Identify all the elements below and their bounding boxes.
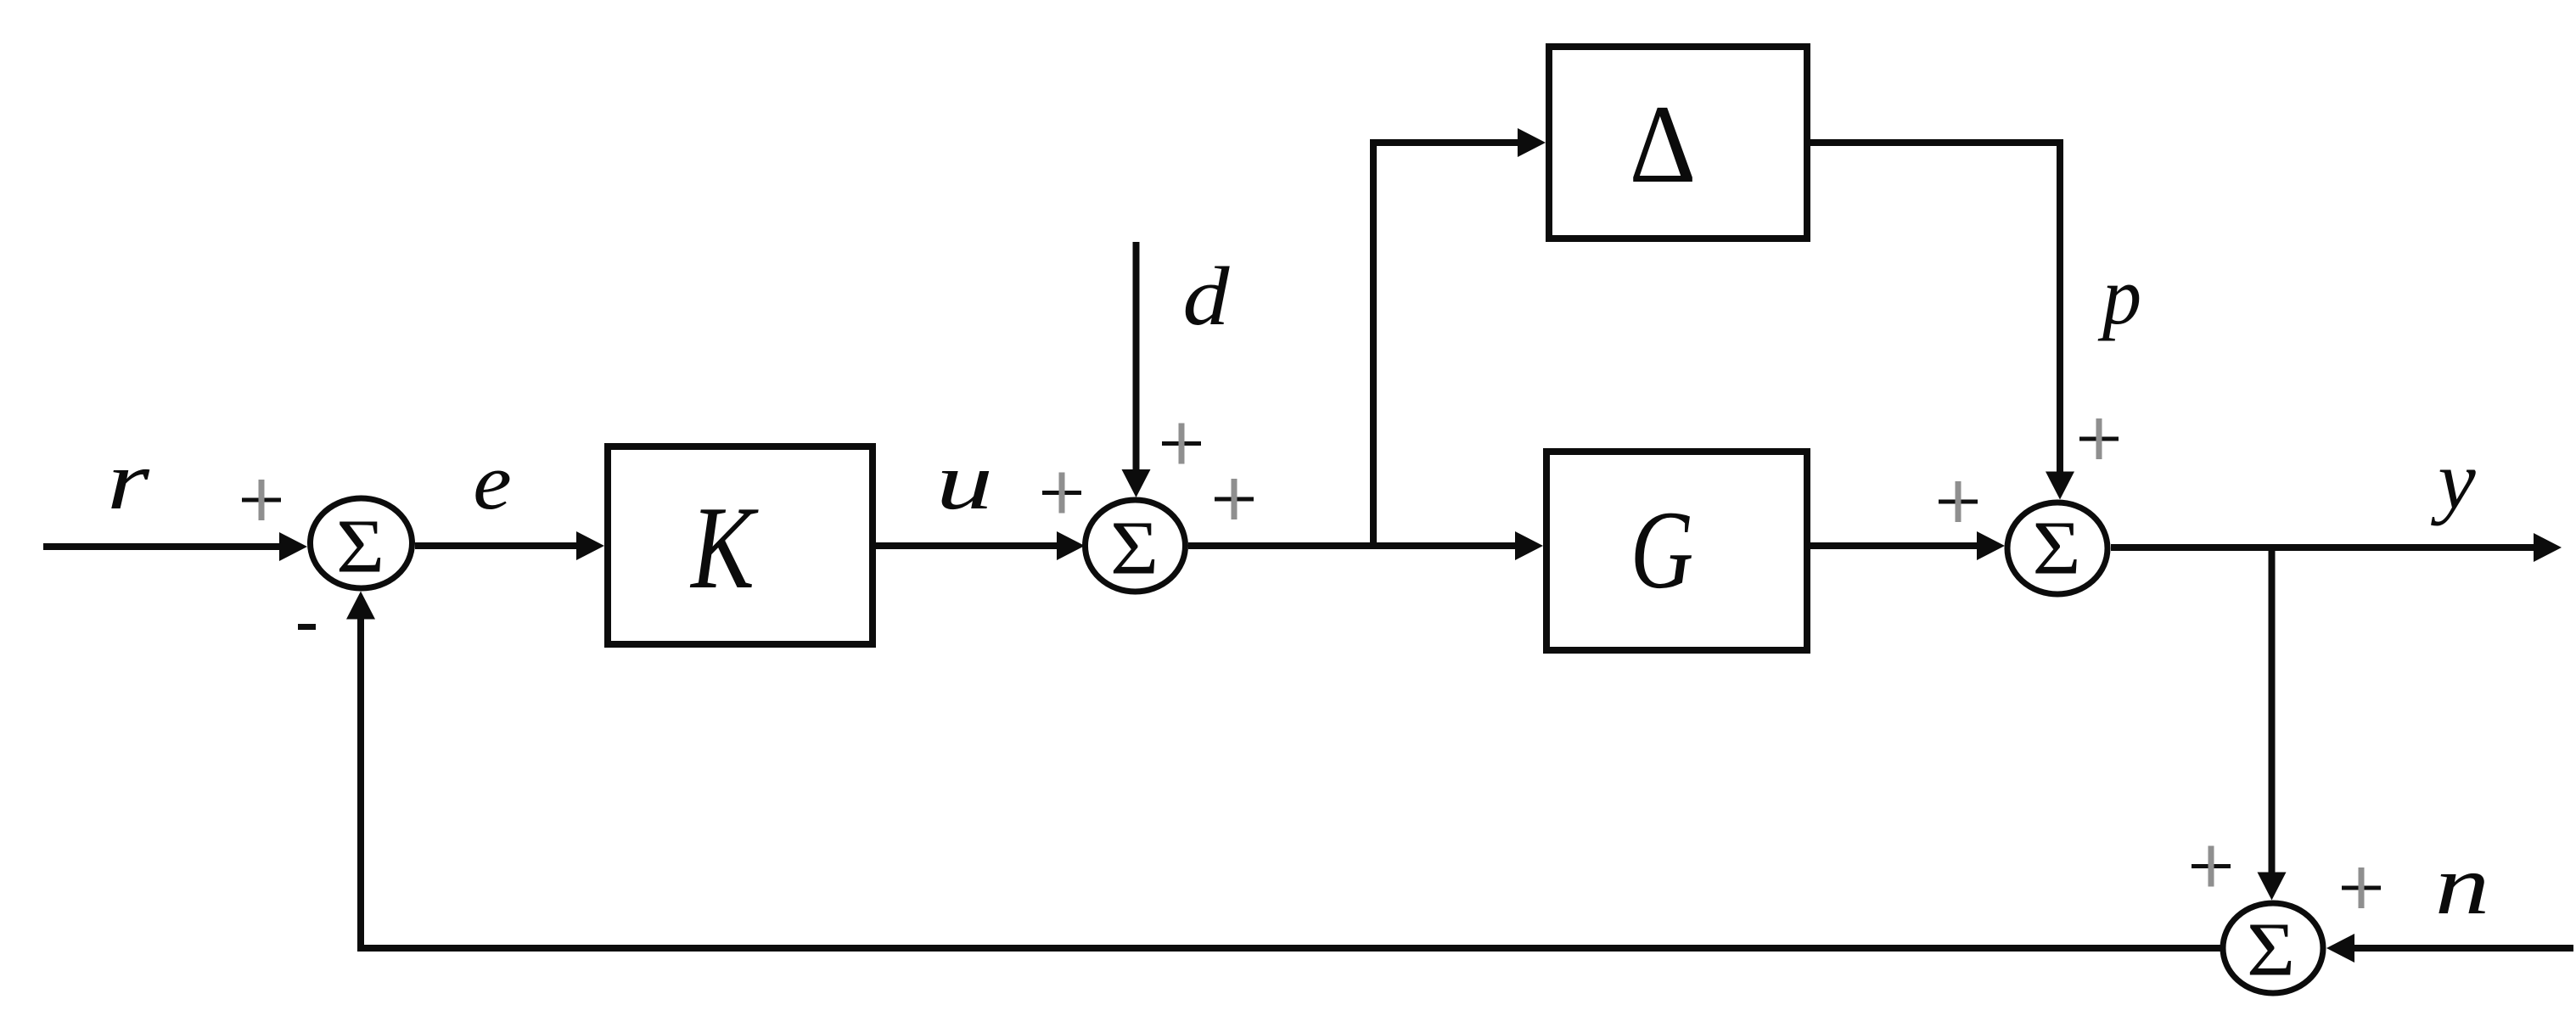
node y xyxy=(2430,435,2476,526)
plus sign r input at S1 xyxy=(242,480,281,520)
block Delta xyxy=(1549,47,1807,239)
wire r input xyxy=(43,532,307,561)
summing junction S3 xyxy=(2007,502,2107,594)
svg-text:d: d xyxy=(1182,250,1230,342)
wire y output xyxy=(2111,533,2562,562)
svg-text:Σ: Σ xyxy=(2247,907,2295,991)
wire n input xyxy=(2326,934,2573,963)
svg-text:Σ: Σ xyxy=(1110,506,1159,590)
wire d input xyxy=(1122,242,1151,497)
svg-text:Σ: Σ xyxy=(2032,506,2080,590)
block K xyxy=(608,446,873,644)
block G xyxy=(1546,452,1807,650)
node d xyxy=(1182,250,1230,342)
wire branch down to S4 xyxy=(2258,547,2287,901)
plus sign n input at S4 xyxy=(2342,867,2381,908)
plus sign u input at S2 xyxy=(1042,473,1081,514)
summing junction S2 xyxy=(1086,500,1186,592)
svg-text:Σ: Σ xyxy=(336,504,384,588)
svg-text:u: u xyxy=(936,436,993,526)
summing junction S1 xyxy=(311,498,412,588)
summing junction S4 xyxy=(2223,903,2323,993)
wire u from K to S2 xyxy=(876,531,1085,560)
plus sign d input at S2 xyxy=(1162,424,1201,464)
wire from S2 to G xyxy=(1188,531,1543,560)
svg-text:r: r xyxy=(107,434,150,526)
node e xyxy=(473,438,511,526)
node p xyxy=(2097,251,2141,341)
wire branch up to Delta xyxy=(1370,128,1546,549)
svg-text:G: G xyxy=(1630,488,1693,612)
plus sign p input at S3 xyxy=(2079,418,2119,459)
node u xyxy=(936,436,993,526)
wire from G to S3 xyxy=(1810,531,2005,560)
wire e from S1 to K xyxy=(415,531,604,560)
svg-text:n: n xyxy=(2435,838,2489,932)
svg-text:e: e xyxy=(473,438,511,526)
svg-text:p: p xyxy=(2097,251,2141,341)
svg-text:Δ: Δ xyxy=(1630,81,1697,206)
svg-text:K: K xyxy=(689,482,758,614)
node r xyxy=(107,434,150,526)
wire p from Delta to S3 xyxy=(1810,139,2074,500)
minus sign feedback input at S1 xyxy=(298,624,316,630)
plus sign right of S2 xyxy=(1215,479,1254,519)
wire feedback from S4 to S1 xyxy=(346,592,2220,952)
plus sign y input at S4 xyxy=(2192,846,2231,887)
node n xyxy=(2435,838,2489,932)
plus sign G input at S3 xyxy=(1939,481,1978,522)
